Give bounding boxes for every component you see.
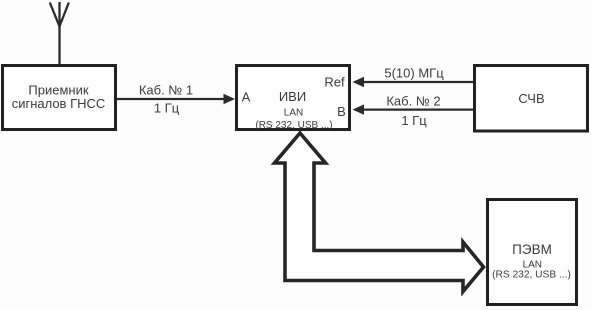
svg-text:LAN: LAN: [284, 108, 303, 119]
svg-text:А: А: [242, 90, 251, 105]
svg-text:(RS 232, USB ...): (RS 232, USB ...): [255, 120, 332, 131]
antenna: [50, 2, 69, 65]
block: ИВИ: [237, 66, 350, 132]
wire: Каб. № 2 (СЧВ to ИВИ pin B): [353, 104, 474, 114]
svg-text:Ref: Ref: [324, 75, 345, 90]
svg-text:(RS 232, USB ...): (RS 232, USB ...): [492, 270, 571, 281]
svg-text:Каб. № 1: Каб. № 1: [139, 82, 193, 97]
big double-headed bent arrow ИВИ - ПЭВМ: [275, 133, 484, 292]
block: СЧВ: [475, 66, 588, 132]
block: Приемник сигналов ГНСС: [3, 66, 116, 130]
svg-text:В: В: [337, 104, 346, 119]
svg-text:1 Гц: 1 Гц: [154, 101, 180, 116]
svg-text:СЧВ: СЧВ: [518, 91, 544, 106]
svg-text:1 Гц: 1 Гц: [401, 113, 427, 128]
svg-text:LAN: LAN: [523, 259, 542, 270]
wire: Каб. № 1 (receiver to ИВИ pin A): [117, 94, 235, 104]
svg-text:сигналов ГНСС: сигналов ГНСС: [12, 96, 106, 111]
svg-text:ПЭВМ: ПЭВМ: [512, 242, 552, 257]
svg-text:Каб. № 2: Каб. № 2: [386, 94, 440, 109]
svg-text:5(10) МГц: 5(10) МГц: [384, 66, 444, 81]
block: ПЭВМ: [488, 200, 577, 305]
wire: 5(10) МГц (СЧВ to ИВИ pin Ref): [353, 77, 474, 87]
svg-text:ИВИ: ИВИ: [279, 89, 306, 104]
